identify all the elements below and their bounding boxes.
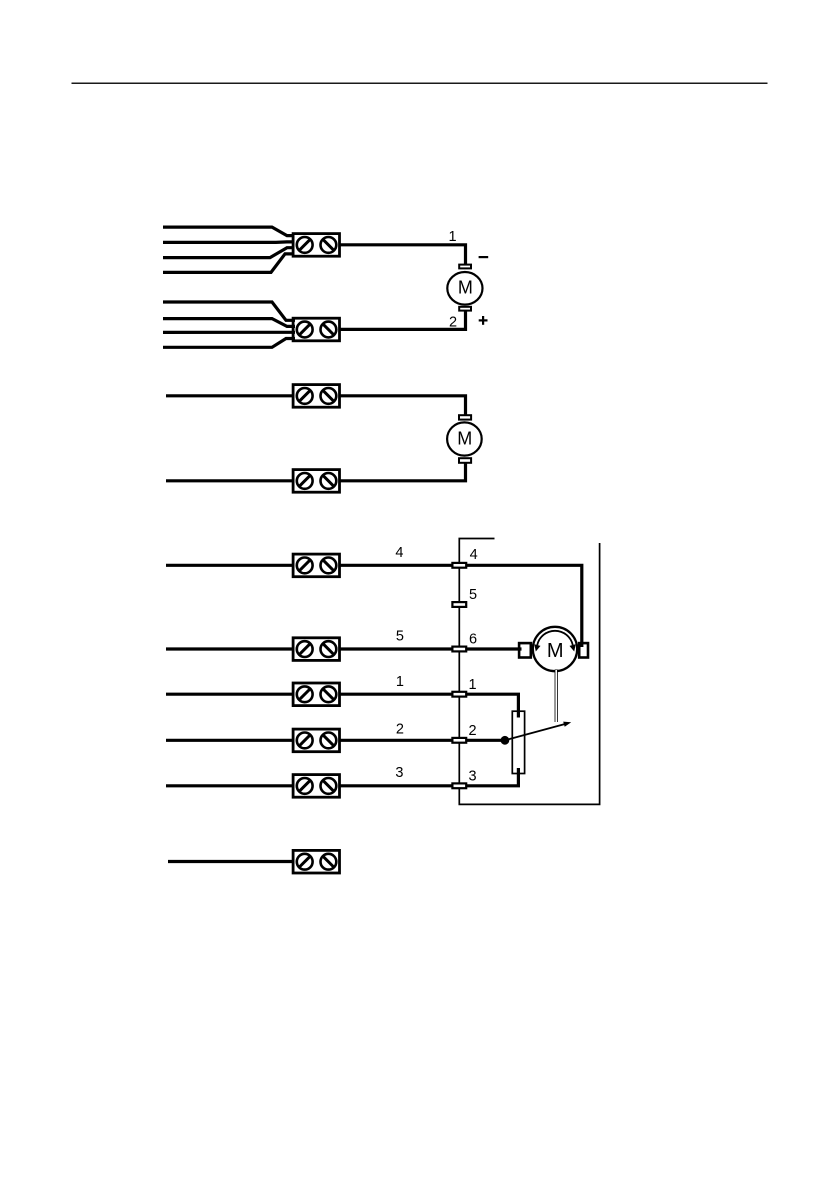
- pin 3: [452, 783, 466, 788]
- motor M1 body: [447, 272, 482, 305]
- svg-text:3: 3: [395, 765, 403, 781]
- pin 6: [452, 647, 466, 652]
- rotation arrowhead right: [570, 644, 576, 651]
- rotation arrowhead left: [534, 644, 540, 651]
- wire from terminal block TB1 to motor terminal 1: [340, 245, 466, 268]
- wire bundle A wire 4: [163, 254, 295, 273]
- svg-text:4: 4: [395, 545, 403, 561]
- minus sign: [479, 256, 489, 258]
- wire bundle B wire 3: [163, 331, 295, 334]
- plus sign: [479, 316, 488, 325]
- motor M3 shaft: [555, 670, 558, 723]
- pin 4: [452, 563, 466, 568]
- terminal block TB10: [293, 850, 339, 873]
- wiper arrow line: [505, 724, 566, 740]
- wire row 1 from terminal block TB7 to potentiometer top: [166, 694, 518, 717]
- wire row 4 from terminal block TB5 to motor M3 right terminal: [166, 565, 582, 647]
- wiper arrowhead: [563, 722, 571, 727]
- svg-text:2: 2: [449, 315, 457, 331]
- motor M3 terminal left: [519, 643, 531, 657]
- terminal block TB3: [293, 385, 339, 408]
- svg-text:5: 5: [396, 629, 404, 645]
- svg-text:1: 1: [449, 229, 457, 245]
- terminal block TB6: [293, 638, 339, 661]
- motor M2 body: [447, 422, 482, 455]
- terminal block TB1: [293, 234, 339, 257]
- motor M3 rotation arc: [537, 631, 573, 645]
- motor M3 terminal right: [579, 643, 588, 657]
- wire bundle B wire 4: [163, 339, 295, 348]
- svg-text:M: M: [547, 640, 564, 662]
- wire bundle B wire 1: [163, 302, 295, 320]
- svg-text:6: 6: [469, 632, 477, 648]
- svg-text:2: 2: [396, 722, 404, 738]
- motor M2 brush terminal bottom: [459, 458, 471, 463]
- svg-text:2: 2: [468, 723, 476, 739]
- svg-text:3: 3: [468, 768, 476, 784]
- motor M3 body: [533, 627, 577, 671]
- potentiometer R body: [512, 711, 524, 773]
- motor M2 brush terminal top: [459, 415, 471, 419]
- terminal block TB9: [293, 775, 339, 798]
- header rule: [72, 82, 768, 84]
- motor M1 brush terminal bottom: [459, 307, 471, 311]
- svg-text:5: 5: [469, 587, 477, 603]
- terminal block TB7: [293, 683, 339, 706]
- pin 2: [452, 738, 466, 743]
- svg-text:M: M: [458, 278, 473, 298]
- wire row 3 from terminal block TB9 to potentiometer bottom: [166, 768, 518, 786]
- wire bundle B wire 2: [163, 319, 295, 327]
- motor M1 brush terminal top: [459, 265, 471, 269]
- wire bottom row to motor: [166, 461, 466, 481]
- terminal block TB8: [293, 729, 339, 752]
- wire top row to motor: [166, 396, 466, 418]
- junction dot on wiper: [501, 736, 510, 745]
- terminal block TB4: [293, 470, 339, 493]
- frame bus and bracket: [459, 539, 599, 805]
- terminal block TB2: [293, 318, 339, 341]
- wire bundle A wire 3: [163, 248, 295, 258]
- terminal block TB5: [293, 554, 339, 577]
- pin 1: [452, 692, 466, 697]
- wire bundle A wire 1: [163, 227, 295, 236]
- svg-text:1: 1: [468, 677, 476, 693]
- pin 5: [452, 602, 466, 607]
- wire row 6 from terminal block TB6 to motor M3 left terminal: [166, 647, 522, 650]
- wire bundle A wire 2: [163, 240, 295, 244]
- wire row 2 from terminal block TB8 to wiper junction: [166, 739, 506, 742]
- svg-text:M: M: [457, 428, 472, 448]
- wire from motor terminal 2 to terminal block TB2: [340, 308, 466, 329]
- svg-text:1: 1: [396, 674, 404, 690]
- svg-text:4: 4: [470, 547, 478, 563]
- single wire: [168, 860, 295, 863]
